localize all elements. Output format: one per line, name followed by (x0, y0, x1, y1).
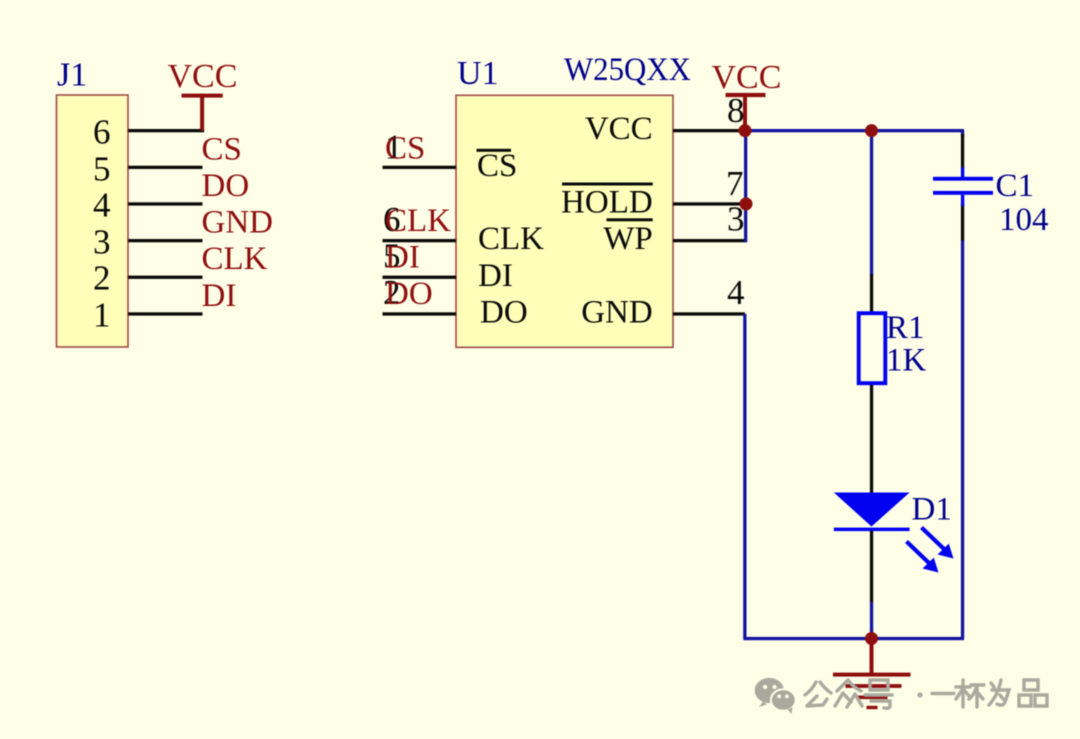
separator dot (917, 692, 922, 697)
svg-text:6: 6 (93, 113, 111, 152)
svg-text:2: 2 (93, 259, 111, 298)
svg-text:GND: GND (202, 205, 274, 241)
wire U1 pin 4 GND (673, 312, 745, 315)
svg-text:CLK: CLK (478, 221, 544, 257)
wire U1 pin 8 VCC (673, 129, 745, 132)
svg-text:4: 4 (93, 186, 111, 225)
pin C1 bottom black (961, 204, 964, 241)
svg-text:CLK: CLK (202, 241, 268, 277)
wire R1 branch vertical navy upper (870, 131, 873, 276)
wire LED to bottom navy (870, 602, 873, 639)
svg-text:DO: DO (385, 276, 433, 312)
wire U1 pin 7 HOLD (673, 202, 746, 205)
glyph 公 (805, 682, 831, 695)
wire J1 pin 6 (128, 129, 204, 132)
svg-text:VCC: VCC (712, 59, 782, 96)
U1 pin name CS with overbar (477, 148, 518, 184)
wire U1 pin 6 CLK (383, 239, 457, 242)
svg-text:104: 104 (999, 202, 1049, 238)
glyph 品 (1019, 680, 1047, 706)
pin C1 top black (961, 134, 964, 168)
IC U1 W25QXX (456, 95, 673, 347)
svg-text:C1: C1 (996, 168, 1035, 204)
wire J1 pin 2 (128, 276, 202, 279)
power port VCC right (712, 59, 782, 131)
svg-text:W25QXX: W25QXX (564, 52, 691, 88)
svg-text:J1: J1 (57, 57, 87, 94)
wire U1 pin 3 WP (673, 239, 747, 242)
svg-text:D1: D1 (912, 492, 952, 528)
watermark wechat icon (755, 678, 796, 714)
pin R1 bottom black (870, 384, 873, 494)
svg-text:5: 5 (93, 150, 111, 189)
svg-text:DI: DI (202, 278, 237, 314)
svg-text:GND: GND (581, 294, 653, 330)
junction dot at ground node (865, 632, 878, 645)
svg-text:CS: CS (477, 148, 517, 184)
wire bottom horizontal (745, 637, 965, 640)
svg-text:VCC: VCC (168, 58, 238, 95)
wire U1 pin 5 DI (383, 276, 457, 279)
pin R1 top black (870, 274, 873, 313)
svg-text:DO: DO (202, 168, 250, 204)
wire J1 pin 3 (128, 239, 202, 242)
glyph 杯 (956, 680, 970, 707)
svg-text:U1: U1 (457, 55, 499, 92)
glyph 为 (989, 680, 1009, 705)
wire C1 branch corner navy (961, 131, 964, 137)
watermark text 公众号 · 一杯为品 (drawn strokes) (805, 680, 1047, 708)
junction dot at R1 branch top (865, 124, 878, 137)
svg-text:CLK: CLK (385, 203, 451, 239)
svg-text:7: 7 (726, 164, 744, 203)
wire J1 pin 1 (128, 312, 202, 315)
capacitor C1 (933, 167, 993, 206)
glyph 众 (837, 680, 861, 691)
power port VCC at J1 (168, 58, 238, 131)
pin LED bottom black (870, 529, 873, 603)
resistor R1 (859, 313, 886, 383)
wire VCC top horizontal (745, 129, 965, 132)
svg-text:3: 3 (93, 223, 111, 262)
ground symbol (833, 639, 911, 710)
svg-text:VCC: VCC (585, 111, 653, 147)
svg-text:4: 4 (727, 273, 745, 312)
U1 pin name WP with overbar (603, 218, 653, 257)
svg-text:CS: CS (202, 131, 242, 167)
svg-text:DI: DI (478, 258, 513, 294)
junction dot at HOLD pin 7 (740, 197, 753, 210)
svg-text:R1: R1 (886, 310, 925, 346)
wire U1 pin 1 CS (383, 166, 457, 169)
svg-text:HOLD: HOLD (561, 184, 653, 220)
svg-text:CS: CS (385, 130, 425, 166)
svg-text:WP: WP (603, 221, 653, 257)
svg-text:DI: DI (385, 239, 420, 275)
wire C1 to bottom navy (961, 241, 964, 639)
LED D1 (834, 493, 954, 573)
connector J1 (57, 95, 129, 347)
wire VCC vertical to HOLD and WP (744, 131, 747, 243)
svg-text:DO: DO (480, 294, 528, 330)
wire J1 pin 5 (128, 166, 202, 169)
wire U1 pin 2 DO (383, 312, 457, 315)
glyph 号 (870, 680, 888, 690)
svg-text:1K: 1K (886, 342, 927, 378)
wire GND net vertical left (743, 314, 746, 640)
U1 pin name HOLD with overbar (561, 183, 653, 221)
glyph 一 (932, 692, 954, 695)
svg-text:1: 1 (93, 296, 111, 335)
wire J1 pin 4 (128, 202, 202, 205)
junction dot at VCC pin 8 (739, 124, 752, 137)
